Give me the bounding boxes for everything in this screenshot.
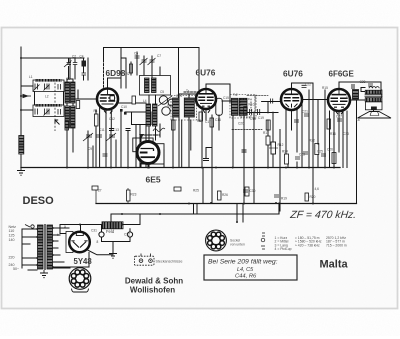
wire bbox=[53, 261, 64, 263]
trimmer C2 bbox=[73, 63, 78, 65]
wire bbox=[242, 213, 244, 222]
detector dashed box bbox=[240, 99, 251, 117]
wire V1 cathode bbox=[99, 108, 101, 168]
svg-text:6U76: 6U76 bbox=[196, 68, 216, 78]
svg-text:R25: R25 bbox=[193, 189, 199, 193]
resistor R2 bbox=[130, 64, 133, 73]
svg-text:140: 140 bbox=[9, 238, 15, 242]
svg-text:4,6: 4,6 bbox=[315, 187, 320, 191]
svg-text:Steckanschlüsse: Steckanschlüsse bbox=[156, 259, 183, 263]
mains switch bbox=[25, 225, 30, 228]
tube V3 6U76 bbox=[281, 89, 302, 110]
wire bbox=[308, 90, 310, 168]
wire bbox=[22, 257, 37, 259]
svg-text:R11: R11 bbox=[263, 131, 269, 135]
svg-text:6U76: 6U76 bbox=[283, 68, 303, 78]
capacitor C7 bbox=[135, 56, 140, 58]
wire bbox=[77, 90, 79, 99]
wire bbox=[115, 140, 117, 168]
svg-text:Malta: Malta bbox=[320, 258, 349, 270]
wire bbox=[163, 150, 165, 168]
svg-text:La: La bbox=[356, 118, 360, 122]
electrolytic C21 bbox=[99, 232, 104, 237]
wire bbox=[66, 79, 68, 82]
svg-text:C44, R6: C44, R6 bbox=[235, 274, 257, 280]
wire bbox=[87, 131, 89, 168]
IF transformer T1 winding b bbox=[184, 98, 194, 117]
wire bbox=[123, 224, 140, 226]
power transformer T4 bbox=[38, 224, 53, 270]
junction blob bbox=[124, 112, 127, 115]
wire bbox=[356, 100, 358, 204]
ground filter bbox=[109, 253, 117, 259]
svg-text:C21: C21 bbox=[302, 110, 308, 114]
svg-text:R26: R26 bbox=[222, 193, 228, 197]
wire bbox=[67, 79, 73, 82]
svg-text:Tr2: Tr2 bbox=[233, 93, 238, 97]
svg-text:L2: L2 bbox=[45, 95, 49, 99]
wire top left rail bbox=[21, 57, 84, 59]
trimmer C1 bbox=[64, 61, 72, 68]
wire bbox=[110, 108, 112, 130]
wire power B+ bbox=[60, 224, 102, 226]
svg-text:6E5: 6E5 bbox=[146, 174, 161, 184]
svg-text:C3: C3 bbox=[66, 77, 70, 81]
wire bbox=[287, 164, 289, 168]
wire bbox=[317, 155, 319, 168]
svg-text:C9: C9 bbox=[88, 147, 92, 151]
svg-text:8: 8 bbox=[97, 240, 99, 244]
capacitor C14 bbox=[321, 154, 326, 156]
gang dashed line bbox=[54, 79, 56, 131]
resistor R4 bbox=[285, 154, 289, 164]
wire bbox=[21, 109, 33, 111]
svg-text:R15: R15 bbox=[322, 86, 328, 90]
svg-text:R23: R23 bbox=[131, 193, 137, 197]
svg-text:C7: C7 bbox=[157, 54, 161, 58]
wire bbox=[95, 110, 97, 114]
svg-text:C6: C6 bbox=[134, 52, 138, 56]
resistor R1 bbox=[95, 114, 99, 126]
wire bbox=[135, 125, 137, 168]
wire bbox=[95, 126, 97, 168]
resistor R15 bbox=[127, 190, 131, 201]
wire bbox=[69, 58, 76, 79]
osc tuning cap rotor 2 bbox=[168, 99, 175, 106]
wire bbox=[291, 110, 293, 130]
svg-text:R16: R16 bbox=[330, 132, 336, 136]
wire bbox=[102, 237, 131, 252]
wire bbox=[184, 91, 206, 93]
legend wave bands bbox=[275, 236, 347, 251]
wire bbox=[53, 240, 58, 242]
wire bbox=[53, 234, 60, 236]
trimmer C9 bbox=[148, 58, 156, 65]
wire mid verticals left of V2 bbox=[172, 107, 174, 168]
wire bbox=[125, 111, 131, 113]
wire bbox=[205, 109, 207, 120]
svg-text:C13: C13 bbox=[113, 128, 119, 132]
resistor R11 bbox=[266, 120, 270, 130]
svg-text:≈ 420 – 738 kHz: ≈ 420 – 738 kHz bbox=[295, 243, 320, 247]
svg-text:C28: C28 bbox=[360, 80, 366, 84]
wire bbox=[105, 110, 107, 168]
svg-text:C31: C31 bbox=[91, 229, 97, 233]
resistor R16 bbox=[218, 191, 222, 200]
wire bbox=[178, 94, 180, 99]
svg-text:110: 110 bbox=[9, 229, 15, 233]
svg-text:C15: C15 bbox=[223, 96, 229, 100]
resistor R13 bbox=[174, 187, 181, 191]
wire bbox=[136, 52, 138, 75]
wire output transformer secondary bbox=[361, 88, 365, 92]
wire bbox=[296, 162, 298, 168]
svg-text:Feld: Feld bbox=[106, 229, 115, 234]
wire bbox=[149, 95, 156, 104]
wire IF2 drops bbox=[232, 116, 234, 168]
wire antenna lead bbox=[20, 47, 22, 168]
wire transformer primary left bbox=[21, 229, 23, 268]
svg-text:C11: C11 bbox=[99, 128, 105, 132]
wire chassis bus bbox=[21, 167, 340, 169]
wire bbox=[211, 115, 213, 203]
wire bbox=[148, 126, 150, 168]
wire bbox=[63, 92, 65, 106]
wire bbox=[22, 243, 30, 245]
wire bbox=[127, 131, 129, 168]
tube V1 6D98 bbox=[97, 89, 118, 110]
wire osc section internals bbox=[130, 62, 132, 75]
wire bbox=[22, 236, 37, 238]
svg-text:R22: R22 bbox=[309, 139, 315, 143]
wire bbox=[329, 111, 331, 168]
wire bbox=[159, 124, 161, 137]
tube 5Y48 rectifier bbox=[66, 232, 90, 253]
svg-text:C5: C5 bbox=[160, 90, 164, 94]
svg-text:C14: C14 bbox=[176, 94, 182, 98]
svg-text:R24: R24 bbox=[282, 150, 288, 154]
resistor R17 bbox=[305, 193, 309, 201]
wire bbox=[140, 135, 142, 142]
loudspeaker bbox=[358, 112, 392, 119]
tube socket bottom-view S1 bbox=[69, 268, 91, 292]
svg-text:C2: C2 bbox=[72, 55, 76, 59]
wire bbox=[301, 104, 303, 168]
svg-text:Bei Serie 209 fällt weg:: Bei Serie 209 fällt weg: bbox=[208, 259, 278, 266]
wire bbox=[346, 111, 348, 168]
cathode marks bbox=[104, 111, 113, 114]
capacitor C20 bbox=[243, 190, 248, 192]
tube socket bottom-view S2 legend bbox=[206, 230, 227, 251]
svg-text:b: b bbox=[57, 233, 59, 237]
wire bbox=[272, 154, 274, 168]
svg-text:C4: C4 bbox=[80, 55, 84, 59]
capacitor C0b bbox=[82, 73, 87, 75]
svg-text:C33: C33 bbox=[343, 132, 349, 136]
tube V4 6F6GE bbox=[328, 89, 350, 111]
wire grid cap V1 bbox=[103, 60, 105, 88]
wire bbox=[53, 254, 60, 256]
svg-text:C12: C12 bbox=[109, 117, 115, 121]
wire bbox=[373, 110, 375, 112]
wire V1 plate bbox=[108, 78, 122, 89]
wire bbox=[267, 120, 269, 136]
wire bbox=[141, 134, 160, 136]
wire bbox=[262, 101, 281, 103]
capacitor C19 bbox=[294, 120, 299, 122]
wire bbox=[72, 128, 74, 152]
svg-text:C10: C10 bbox=[121, 105, 127, 109]
svg-text:R10: R10 bbox=[249, 103, 255, 107]
wire bbox=[72, 103, 74, 106]
capacitor C13 bbox=[303, 152, 308, 154]
wire bbox=[381, 90, 383, 102]
wire V4 grid cap bbox=[339, 82, 381, 90]
wire trimmer drops bbox=[68, 67, 70, 80]
resistor R3b bbox=[266, 136, 270, 145]
svg-text:C25: C25 bbox=[317, 150, 323, 154]
svg-text:C19: C19 bbox=[258, 116, 264, 120]
IF transformer T2 winding a bbox=[231, 98, 238, 115]
svg-text:C32: C32 bbox=[124, 233, 130, 237]
wire bbox=[242, 204, 244, 213]
wire bbox=[53, 247, 58, 249]
IF transformer T2 winding b bbox=[239, 98, 247, 115]
wire V3 plate top bbox=[292, 83, 314, 203]
pilot lamp symbol bbox=[261, 233, 265, 249]
wire bbox=[218, 115, 220, 130]
wire bbox=[338, 111, 340, 152]
annotation arrow bbox=[55, 120, 60, 125]
svg-text:R12: R12 bbox=[278, 143, 284, 147]
resistor R12 bbox=[172, 120, 176, 130]
wire bbox=[247, 95, 268, 97]
wire bbox=[139, 214, 141, 225]
svg-text:Wollishofen: Wollishofen bbox=[130, 285, 175, 294]
resistor R1b bbox=[65, 121, 69, 130]
wire V2 plate top bbox=[206, 84, 230, 103]
wire bbox=[121, 58, 126, 88]
wire bbox=[155, 126, 157, 140]
svg-text:50~: 50~ bbox=[13, 267, 19, 271]
wire bbox=[151, 56, 153, 80]
wire bbox=[143, 56, 145, 75]
antenna coil L1 bbox=[19, 136, 24, 155]
resistor R0 bbox=[82, 61, 87, 67]
wire bbox=[80, 225, 82, 232]
wire left column links bbox=[21, 85, 33, 87]
trimmer C3 bbox=[83, 133, 93, 141]
resistor R6 bbox=[332, 153, 336, 164]
wire bbox=[253, 113, 255, 204]
svg-text:C30: C30 bbox=[250, 189, 256, 193]
wire AF step bbox=[206, 148, 212, 159]
wire bbox=[179, 48, 200, 103]
transformer tap dots bbox=[36, 227, 54, 268]
wire bbox=[110, 214, 112, 222]
wire bbox=[145, 125, 147, 168]
antenna input arrow bbox=[21, 95, 31, 97]
wire coupling to V4 bbox=[302, 99, 328, 101]
wire V2 grid left bbox=[195, 98, 198, 100]
wire bbox=[188, 94, 190, 99]
svg-text:R8: R8 bbox=[197, 119, 201, 123]
capacitor C12 bbox=[274, 195, 279, 197]
svg-text:R1: R1 bbox=[94, 109, 98, 113]
resistor R10 bbox=[244, 107, 248, 115]
svg-text:von unten: von unten bbox=[230, 242, 245, 246]
osc coil L2 bbox=[145, 78, 150, 93]
connector Steckanschluss bbox=[135, 254, 155, 266]
capacitor C6 bbox=[126, 129, 131, 131]
band filter box 1 bbox=[33, 80, 64, 92]
wire bbox=[272, 113, 274, 143]
svg-text:27: 27 bbox=[98, 189, 102, 193]
wire bbox=[190, 120, 192, 150]
wire V2 cathode bbox=[201, 109, 203, 168]
wire bbox=[324, 90, 326, 168]
wire bbox=[101, 225, 103, 232]
svg-text:C26: C26 bbox=[327, 148, 333, 152]
svg-text:C23: C23 bbox=[299, 153, 305, 157]
wire bbox=[129, 229, 131, 232]
svg-text:Dewald & Sohn: Dewald & Sohn bbox=[125, 276, 183, 285]
svg-text:a: a bbox=[64, 225, 66, 229]
svg-text:L4: L4 bbox=[143, 99, 147, 103]
osc coil L3 bars bbox=[146, 104, 151, 126]
wire bbox=[22, 264, 37, 266]
wire bbox=[60, 225, 66, 234]
svg-text:6D98: 6D98 bbox=[106, 68, 126, 78]
resistor R2c bbox=[132, 96, 136, 104]
svg-text:R20: R20 bbox=[310, 195, 316, 199]
wire ground bus B bbox=[96, 203, 357, 205]
wire bbox=[159, 67, 161, 75]
IF transformer T1 winding a bbox=[173, 98, 180, 117]
tube 6E5 magic eye bbox=[133, 134, 164, 164]
wire bbox=[147, 164, 149, 168]
grid choke V4 bbox=[353, 90, 359, 100]
svg-text:C22: C22 bbox=[305, 83, 311, 87]
field coil Feld bbox=[102, 222, 123, 229]
capacitor C16 grid V4 bbox=[352, 84, 354, 89]
resistor R14 bbox=[92, 186, 98, 190]
ground chassis left bbox=[17, 168, 25, 176]
band filter box 2 bbox=[33, 105, 64, 117]
svg-text:C27: C27 bbox=[336, 115, 342, 119]
svg-text:220: 220 bbox=[9, 256, 15, 260]
capacitor C15b bbox=[302, 85, 307, 87]
tuning coil bars La bbox=[65, 82, 70, 103]
wire bbox=[254, 96, 256, 113]
mains voltage labels bbox=[9, 225, 20, 271]
wire bbox=[267, 145, 269, 168]
wire V3 cathode bbox=[285, 109, 287, 154]
wire 6E5 drops bbox=[140, 164, 142, 168]
wire rectifier heater bbox=[53, 253, 89, 268]
wire rect filter caps bbox=[87, 250, 114, 255]
wire transformer secondary taps bbox=[53, 227, 69, 229]
wire V1 grid lead bbox=[76, 98, 98, 100]
resistor R8 bbox=[199, 112, 203, 121]
wire bbox=[66, 128, 68, 168]
svg-text:C20: C20 bbox=[238, 122, 244, 126]
wire osc grid link bbox=[118, 102, 146, 104]
resistor R19b bbox=[245, 187, 249, 196]
detector caps row bbox=[250, 109, 252, 115]
wire bbox=[69, 58, 71, 79]
wire bbox=[28, 269, 37, 271]
capacitor C4b bbox=[295, 157, 300, 159]
wire bbox=[222, 100, 231, 102]
wire V4 plate to output transformer bbox=[350, 99, 365, 101]
capacitor C15 bbox=[304, 114, 309, 116]
ground transformer bbox=[40, 270, 48, 278]
osc tuning cap rotor 1 bbox=[159, 96, 167, 104]
wire bbox=[296, 108, 298, 152]
wire B-plus stubs bbox=[194, 204, 198, 215]
wire bbox=[53, 267, 70, 269]
bypass can V2 bbox=[216, 98, 223, 115]
wire bbox=[342, 111, 344, 168]
wire bbox=[236, 204, 238, 222]
svg-text:L1: L1 bbox=[29, 75, 33, 79]
wire band filter verticals bbox=[34, 92, 36, 106]
wire detector branch bbox=[247, 112, 278, 114]
svg-text:6F6GE: 6F6GE bbox=[329, 70, 355, 79]
resistor R7 cathode V4 bbox=[327, 119, 331, 129]
osc box B bbox=[140, 76, 171, 96]
tube V2 6U76 bbox=[196, 89, 216, 109]
capacitor C18 bbox=[337, 119, 342, 121]
capacitor C5b bbox=[71, 124, 75, 126]
svg-text:125: 125 bbox=[9, 234, 15, 238]
wire bbox=[84, 58, 89, 80]
svg-text:715 – 2000 m: 715 – 2000 m bbox=[326, 243, 347, 247]
svg-text:5Y48: 5Y48 bbox=[74, 257, 93, 266]
trimmer C8 bbox=[140, 58, 148, 65]
svg-text:C18: C18 bbox=[250, 117, 256, 121]
capacitor C17 bbox=[368, 84, 373, 86]
trimmer C4 bbox=[106, 133, 116, 141]
svg-text:R19: R19 bbox=[281, 197, 287, 201]
wire bbox=[180, 93, 196, 95]
svg-text:R2: R2 bbox=[126, 72, 130, 76]
svg-text:DESO: DESO bbox=[23, 195, 55, 207]
resistor R5 bbox=[315, 144, 319, 155]
wire osc box A outline bbox=[104, 48, 179, 103]
svg-text:C16: C16 bbox=[215, 118, 221, 122]
resistor R1c bbox=[76, 101, 80, 109]
svg-text:L4, C5: L4, C5 bbox=[237, 267, 254, 273]
capacitor C5 bbox=[109, 129, 114, 131]
volume pot R3 bbox=[271, 142, 276, 154]
wire bbox=[110, 130, 112, 168]
wire bbox=[188, 117, 190, 168]
wire bbox=[317, 100, 319, 145]
wire bbox=[120, 48, 122, 89]
note box Serie 209 bbox=[204, 255, 297, 280]
wire V4 cathode bbox=[333, 111, 335, 168]
resistor R9 bbox=[210, 118, 214, 127]
junction blob bbox=[120, 109, 123, 112]
wire bbox=[139, 125, 141, 168]
svg-text:C17: C17 bbox=[205, 120, 211, 124]
wire bbox=[243, 116, 245, 204]
svg-text:4 = Pick-up: 4 = Pick-up bbox=[275, 247, 292, 251]
wire coil bars to bus bbox=[66, 103, 68, 106]
band filter trimmers bbox=[34, 84, 61, 116]
